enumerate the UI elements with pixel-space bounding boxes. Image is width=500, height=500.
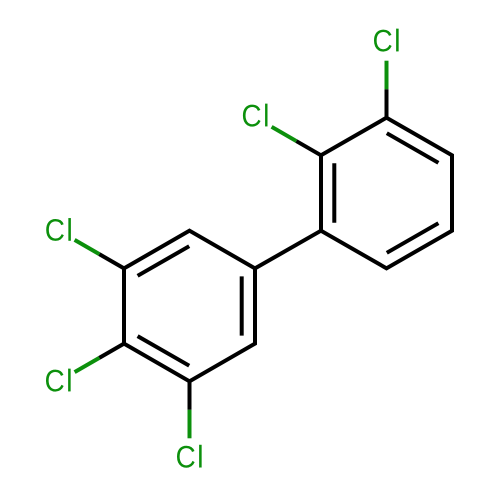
bond C3'-Cl green half: [385, 61, 389, 89]
Cl label on C2': [243, 104, 268, 127]
benzene ring A (2,3-dichlorophenyl, upper right) outline: [321, 118, 452, 269]
ring B double bond C1=C2 inner line: [240, 276, 244, 335]
bond C4-Cl green half: [75, 358, 100, 372]
bond C3-Cl green half: [188, 410, 192, 439]
bond C5-Cl green half: [75, 240, 100, 254]
ring B double bond C5=C6 inner line: [138, 246, 190, 276]
bond C2'-Cl green half: [272, 127, 297, 141]
Cl label on C3': [374, 29, 399, 52]
bond C4-Cl black half: [99, 344, 124, 358]
bond C3-Cl black half: [188, 381, 192, 410]
ring B double bond C3=C4 inner line: [138, 336, 190, 366]
Cl label on C3: [177, 445, 202, 468]
ring A double bond C5'=C6' inner line: [387, 223, 439, 253]
benzene ring B (3,4,5-trichlorophenyl, lower left) outline: [124, 231, 255, 382]
Cl label on C5: [46, 218, 71, 241]
bond C2'-Cl black half: [296, 141, 321, 155]
biphenyl bond C1-C1': [255, 231, 321, 269]
bond C3'-Cl black half: [385, 89, 389, 118]
Cl label on C4: [46, 369, 71, 392]
bond C5-Cl black half: [99, 254, 124, 268]
ring A double bond C1'=C2' inner line: [332, 163, 336, 222]
ring A double bond C3'=C4' inner line: [387, 133, 439, 163]
